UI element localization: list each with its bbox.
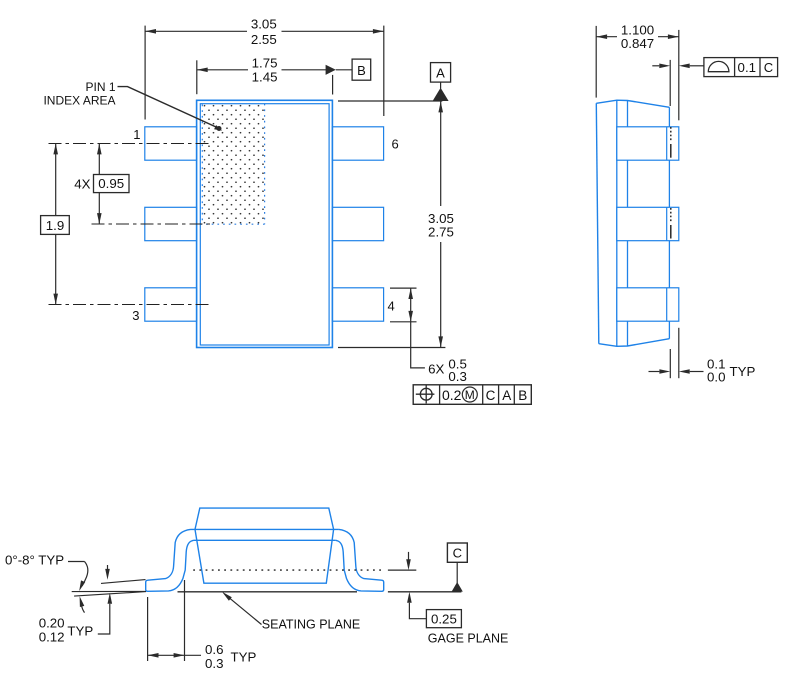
gage plane dotted line (193, 569, 382, 571)
0.6/0.3 right arrow (174, 653, 185, 658)
svg-text:0.0: 0.0 (707, 369, 726, 384)
svg-text:0.6: 0.6 (205, 642, 224, 657)
dimension 3.05/2.75 bottom arrow (438, 336, 443, 347)
6X 0.5/0.3 dimension line (410, 288, 412, 322)
angle leader arc lower with arrow (80, 596, 85, 607)
pin 1 index area stipple (202, 105, 264, 225)
side body left edge (596, 103, 599, 343)
svg-text:TYP: TYP (67, 623, 93, 638)
pin 1 (top view) (145, 127, 197, 160)
package body outer outline (top view) (197, 100, 333, 347)
side body right face segments (668, 107, 670, 127)
datum B leader arrow (solid) (326, 65, 336, 75)
side body bottom edge (599, 339, 670, 347)
0.1/0.0 right arrow (pointing left) (679, 369, 690, 374)
svg-text:A: A (436, 66, 445, 81)
pin 2 centerline (92, 223, 213, 225)
pin 1 centerline (49, 143, 211, 145)
datum C stem (456, 562, 458, 583)
lead tip hidden line in pin 2 (670, 208, 672, 222)
svg-text:TYP: TYP (730, 364, 756, 379)
0.95 boxed value (94, 175, 130, 193)
svg-text:0.12: 0.12 (39, 629, 65, 644)
pin 3 (top view) (145, 288, 197, 321)
surface profile symbol (708, 61, 729, 71)
svg-text:C: C (453, 546, 462, 561)
stipple boundary right (dotted) (264, 104, 266, 225)
dimension 1.100/0.847 right extension (long) (678, 30, 680, 120)
1.9 top arrow (53, 144, 58, 155)
svg-text:3.05: 3.05 (251, 16, 277, 31)
side pin 1 (617, 127, 679, 160)
0.6/0.3 left extension (147, 597, 149, 661)
4X 0.95 top arrow (97, 144, 102, 155)
svg-text:0.1: 0.1 (738, 60, 757, 75)
0.6/0.3 left arrow (148, 653, 159, 658)
angle leader arc upper with arrow (82, 562, 88, 587)
4X 0.95 dimension line (98, 144, 100, 175)
svg-text:4: 4 (388, 299, 395, 314)
pin 3 centerline (49, 304, 211, 306)
0.25 up arrow and leader (407, 592, 412, 603)
svg-text:6X: 6X (428, 362, 444, 377)
left lead (146, 529, 194, 591)
PIN 1 leader line (118, 87, 219, 128)
dimension 3.05/2.75 bottom extension line (338, 347, 445, 349)
1.100 right arrow (668, 34, 679, 39)
lead top line across body (191, 528, 339, 530)
datum A line along body top (338, 100, 442, 102)
1.9 bottom arrow (53, 294, 58, 305)
0.20/0.12 down arrow (107, 565, 109, 570)
svg-text:B: B (518, 388, 527, 403)
svg-text:0°-8° TYP: 0°-8° TYP (5, 553, 64, 568)
dimension 1.75/1.45 right extension line (332, 75, 334, 95)
seating plane line (178, 591, 358, 593)
dimension 3.05/2.55 left arrow (145, 29, 156, 34)
dimension 3.05/2.55 right extension line (383, 26, 385, 116)
svg-text:0.20: 0.20 (39, 615, 65, 630)
svg-text:B: B (357, 63, 366, 78)
svg-text:3: 3 (132, 308, 139, 323)
svg-text:0.847: 0.847 (621, 36, 654, 51)
dimension 3.05/2.75 vertical line (440, 102, 442, 207)
svg-text:0.25: 0.25 (431, 611, 457, 626)
svg-text:C: C (764, 60, 773, 75)
SEATING PLANE leader arrow (222, 592, 232, 601)
0.20/0.12 up arrow with leader (108, 593, 113, 604)
6X 0.5/0.3 top extension line (390, 287, 417, 289)
datum B leader line (336, 69, 352, 71)
side body inner edge segments (627, 101, 629, 127)
0.25 boxed value (426, 610, 461, 628)
svg-text:A: A (502, 388, 511, 403)
6X 0.5/0.3 bottom extension line (390, 321, 417, 323)
dimension 3.05/2.55 left extension line (144, 26, 146, 120)
lead tip hidden line in pin 1 (670, 127, 672, 141)
datum C triangle (452, 582, 463, 592)
svg-text:SEATING PLANE: SEATING PLANE (262, 618, 360, 632)
pin 5 (top view) (332, 207, 383, 240)
pin 6 (top view) (332, 127, 383, 160)
svg-text:0.3: 0.3 (448, 369, 467, 384)
svg-text:4X: 4X (74, 177, 90, 192)
position symbol (420, 388, 432, 400)
dimension 3.05/2.55 line (145, 30, 247, 32)
1.9 boxed value (41, 216, 70, 235)
1.9 dimension line (55, 144, 57, 216)
package body inner outline (top view) (200, 104, 329, 345)
0.1/0.0 TYP right extension (678, 328, 680, 378)
angle leader horizontal (68, 561, 85, 563)
datum A box (431, 63, 451, 83)
dimension 1.100/0.847 left extension (595, 26, 597, 98)
svg-text:1.9: 1.9 (46, 218, 65, 233)
lead foot top plane extended (101, 580, 146, 584)
4X 0.95 bottom arrow (97, 213, 102, 224)
profile FCF leader arrow (679, 64, 690, 69)
6X 0.5/0.3 top arrow (408, 288, 413, 299)
svg-text:6: 6 (392, 137, 399, 152)
side pin 3 (617, 288, 679, 321)
lead bottom line across body (194, 539, 336, 541)
stipple boundary bottom (dotted) (200, 223, 264, 225)
svg-text:0.3: 0.3 (205, 656, 224, 671)
svg-text:1.75: 1.75 (252, 55, 278, 70)
arrow pointing right at lead face (659, 64, 670, 69)
lead tip reference line (short) (669, 60, 671, 106)
gage plane down arrow (408, 552, 410, 560)
PIN 1 leader arrow (214, 125, 222, 131)
datum A triangle (filled) (433, 88, 449, 101)
0.1/0.0 TYP left extension (669, 349, 671, 378)
datum C box (447, 543, 467, 562)
svg-text:2.55: 2.55 (251, 32, 277, 47)
pin 2 (top view) (145, 207, 197, 240)
side pin 2 (617, 207, 679, 240)
position tolerance feature control frame (413, 385, 531, 405)
0.6/0.3 right extension (184, 580, 186, 661)
gage plane line right segment (388, 569, 416, 571)
dimension 1.75/1.45 left arrow (197, 68, 208, 73)
svg-text:M: M (465, 388, 475, 402)
datum B box (352, 59, 371, 80)
6X 0.5/0.3 bottom arrow (408, 311, 413, 322)
0.6/0.3 dimension line (148, 654, 201, 656)
svg-text:C: C (486, 388, 496, 403)
dimension 1.75/1.45 left extension line (196, 60, 198, 94)
1.100 left arrow (596, 34, 607, 39)
side body parting line (616, 100, 618, 346)
profile tolerance feature control frame (704, 58, 778, 77)
svg-text:1.45: 1.45 (252, 69, 278, 84)
pin 4 (top view) (332, 288, 383, 321)
side body top edge (596, 100, 669, 107)
datum A stem (440, 82, 442, 88)
6X 0.5/0.3 leader (411, 322, 425, 368)
0.1/0.0 left arrow (pointing right) (659, 369, 670, 374)
svg-text:2.75: 2.75 (428, 225, 454, 240)
front body outline (195, 508, 334, 583)
dimension 3.05/2.75 top arrow (438, 102, 443, 113)
svg-text:0.95: 0.95 (98, 176, 124, 191)
svg-text:1: 1 (133, 127, 140, 142)
svg-text:0.2: 0.2 (442, 387, 462, 403)
dimension 3.05/2.55 right arrow (373, 29, 384, 34)
dimension 1.75/1.45 line (197, 69, 248, 71)
dimension 1.100/0.847 line (596, 36, 617, 38)
right lead (336, 529, 384, 591)
svg-text:TYP: TYP (231, 649, 257, 664)
svg-text:INDEX AREA: INDEX AREA (43, 94, 115, 108)
svg-text:PIN 1: PIN 1 (85, 80, 115, 94)
seating plane extended left (72, 590, 146, 592)
lead underside max-angle line (74, 592, 146, 597)
svg-text:GAGE PLANE: GAGE PLANE (428, 631, 509, 645)
stipple boundary left (dotted) (201, 105, 203, 225)
